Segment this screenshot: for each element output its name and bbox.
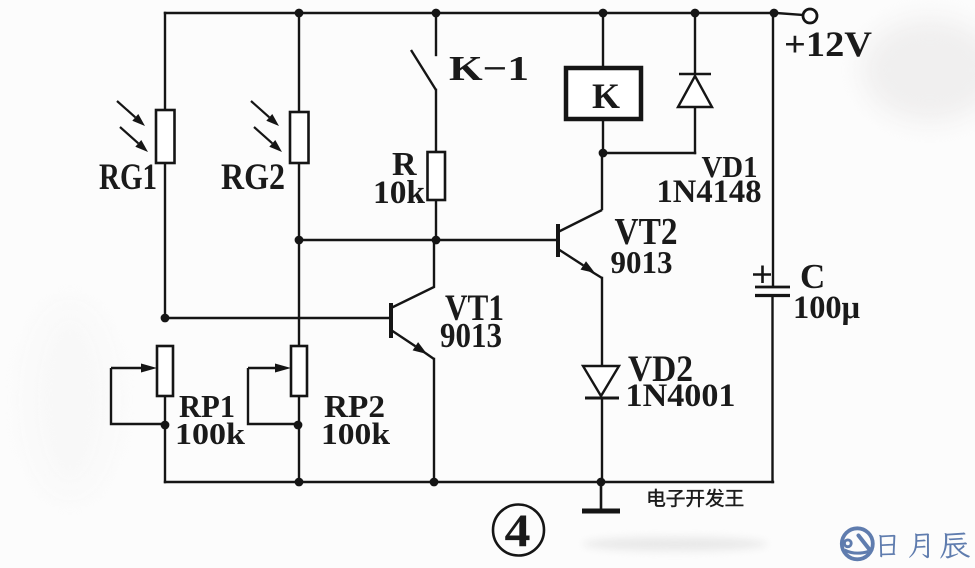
node dot top VD1 [691,9,700,18]
node dot RP1 wiper [161,421,170,430]
photoresistor RG2 [290,112,309,163]
wire left branch RG1 top [164,13,166,110]
svg-text:10k: 10k [373,175,426,211]
svg-text:K−1: K−1 [449,49,529,88]
svg-text:RG1: RG1 [99,157,157,198]
transistor VT1 [391,240,434,359]
svg-text:K: K [592,76,620,116]
node dot mid RG2 [295,236,304,245]
wire RG2 branch top [298,13,300,112]
wire bottom rail [165,481,773,483]
wire VT1 emitter down [433,359,435,482]
node dot bottom VT1 [430,478,439,487]
node dot bottom RP2 [295,478,304,487]
wire VT2 collector up [601,153,603,209]
transistor VT2 [558,210,602,278]
wire VD1 branch top [694,13,696,74]
wire right rail [772,13,774,286]
node dot top K-1 [432,9,441,18]
ground [600,482,603,509]
svg-text:4: 4 [505,505,531,557]
wire VD2 to bottom rail [601,398,603,482]
wire RP2 lower [298,396,300,482]
svg-text:100k: 100k [175,416,246,451]
svg-text:1N4001: 1N4001 [626,378,736,414]
potentiometer RP2 [291,346,307,396]
wire RG1 to base node [164,163,166,318]
node dot top relay [599,9,608,18]
resistor R [428,152,446,200]
photoresistor RG1 [156,110,175,163]
svg-text:9013: 9013 [440,316,502,355]
figure number 4 [493,505,544,556]
capacitor C [753,266,790,296]
node dot RP2 wiper [294,421,303,430]
watermark dianzikaifawang [648,489,665,507]
node dot bottom VD2 [597,478,606,487]
diode VD1 [679,73,711,76]
node dot VT1 base left [161,314,170,323]
node dot relay-VD1 [599,149,608,158]
switch K-1 [411,50,436,90]
logo riyuechen text [879,535,895,557]
node dot mid R [432,236,441,245]
svg-text:+12V: +12V [784,24,872,64]
relay coil K [566,68,641,119]
wire VT1 base rail [165,317,390,319]
node dot top RG2 [295,9,304,18]
terminal +12V [803,9,817,23]
svg-text:1N4148: 1N4148 [657,174,762,210]
svg-text:RG2: RG2 [221,157,285,198]
wire RG2 node down to RP2 [298,240,300,346]
wire VD1 bottom [694,107,696,153]
wire R bottom to mid rail [435,200,437,240]
wire K-1 branch top [435,13,437,55]
wire relay K bottom [602,119,604,153]
wire capacitor to bottom rail [771,297,773,482]
wire top rail [165,12,774,14]
svg-text:100μ: 100μ [793,290,860,326]
potentiometer RP1 [157,346,173,396]
svg-text:9013: 9013 [611,244,673,280]
wire RG2 to mid node [298,163,300,240]
svg-text:100k: 100k [321,416,391,451]
wire mid rail (VT2 base) [299,239,558,241]
diode VD2 [583,366,619,396]
wire RP1 lower [164,396,166,482]
wire to +12V terminal [776,13,803,15]
node dot top right [770,9,779,18]
logo riyuechen circle [842,528,873,559]
wire VT2 emitter to VD2 [601,278,603,366]
wire relay node to VD1 [603,152,695,154]
wire switch to resistor R [435,90,437,152]
wire relay branch top [602,13,604,68]
